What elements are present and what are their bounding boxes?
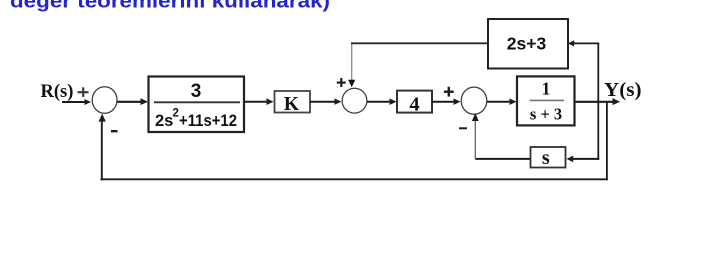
label - bottom input of S3 xyxy=(459,127,467,129)
wire outer feedback bottom horizontal xyxy=(101,178,608,180)
block B1 value 3/(2s^2+11s+12) xyxy=(149,77,245,133)
wire input R(s) to S1 xyxy=(62,101,87,103)
svg-text:3: 3 xyxy=(191,81,202,102)
wire s block to S3 (horizontal) xyxy=(475,158,530,160)
block B5 value 1/(s+3) xyxy=(517,76,575,125)
svg-text:2s: 2s xyxy=(155,112,173,130)
wire s block to S3 (vertical up) xyxy=(474,116,476,159)
summing junction S3 xyxy=(461,87,487,114)
label + at input of S1 xyxy=(78,87,89,97)
svg-text:s + 3: s + 3 xyxy=(530,105,562,124)
wire outer feedback right vertical xyxy=(606,102,608,180)
wire B5 to output Y(s) xyxy=(575,101,616,103)
wire into 2s+3 block (top feedback right segment) xyxy=(573,42,599,44)
summing junction S1 xyxy=(92,87,117,114)
label + left input of S3 xyxy=(444,87,454,97)
svg-text:2: 2 xyxy=(173,108,179,120)
wire B4 to S3 xyxy=(432,101,456,103)
svg-text:Y(s): Y(s) xyxy=(604,80,642,101)
wire outer feedback left vertical up into S1 xyxy=(101,116,103,180)
svg-text:+11s+12: +11s+12 xyxy=(179,112,237,130)
wire output node vertical to 2s+3 and to s block xyxy=(597,43,599,159)
svg-text:2s+3: 2s+3 xyxy=(507,34,547,54)
block K xyxy=(275,91,311,113)
svg-text:değer teoremlerini kullanarak): değer teoremlerini kullanarak) xyxy=(10,0,330,12)
block B7 value s xyxy=(531,147,566,168)
wire 2s+3 output to corner above S2 (top feedback left segment) xyxy=(351,42,489,44)
wire from node down to s block (right segment) xyxy=(571,158,599,160)
block B4 value 4 xyxy=(397,91,432,113)
wire B1 to K xyxy=(244,101,269,103)
label + left input of S2 xyxy=(337,78,346,87)
wire K to S2 xyxy=(310,101,337,103)
block B6 value 2s+3 xyxy=(488,19,568,69)
svg-text:4: 4 xyxy=(409,94,419,116)
label - at feedback input of S1 xyxy=(111,130,118,132)
summing junction S2 xyxy=(342,88,367,113)
wire feedback from 2s+3 down into S2 (vertical gray) xyxy=(351,43,353,82)
svg-text:R(s): R(s) xyxy=(41,82,74,102)
svg-text:s: s xyxy=(542,147,550,169)
wire S1 to B1 xyxy=(118,101,145,103)
wire S3 to B5 xyxy=(487,101,512,103)
wire S2 to B4 xyxy=(367,101,392,103)
svg-text:K: K xyxy=(284,94,300,115)
svg-text:1: 1 xyxy=(542,79,551,99)
